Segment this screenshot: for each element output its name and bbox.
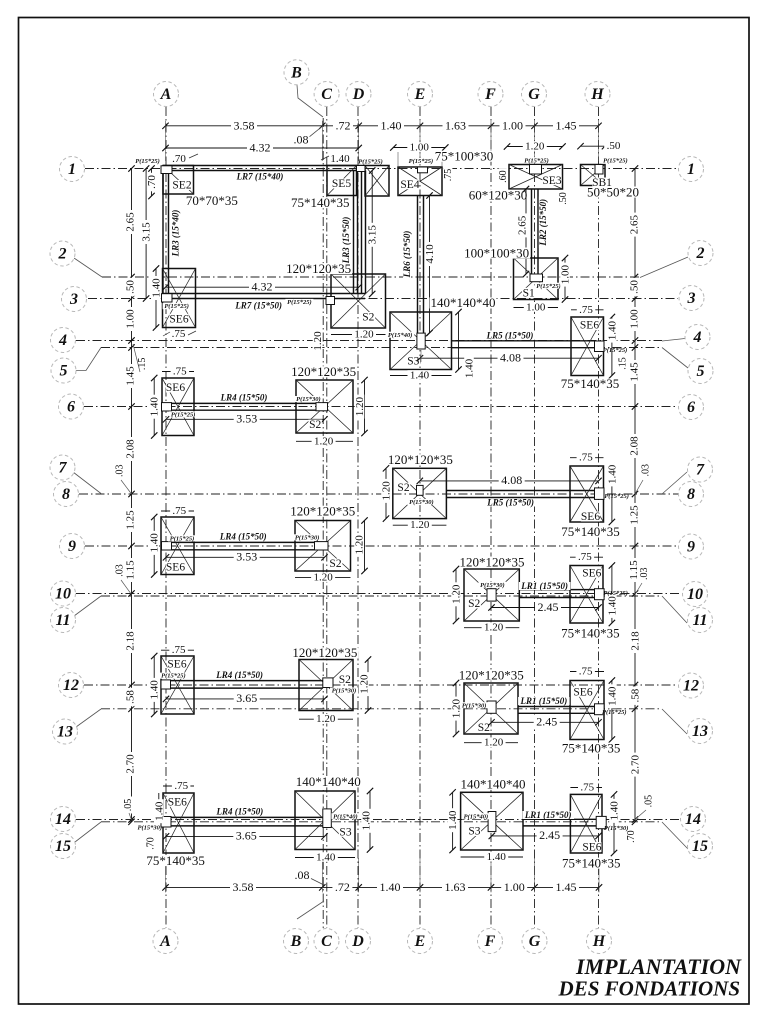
footing S2 (C/9) — [295, 521, 351, 572]
svg-text:4: 4 — [58, 332, 67, 349]
svg-text:12: 12 — [683, 678, 699, 695]
grid circle E bottom — [408, 929, 433, 954]
label 120*120*35 (C/12) — [291, 647, 358, 658]
grid circle 9 right — [679, 534, 704, 559]
svg-text:3.65: 3.65 — [236, 829, 257, 843]
grid line 6 (horizontal) — [84, 406, 678, 408]
svg-text:.75: .75 — [579, 304, 593, 316]
grid circle B bottom — [284, 929, 309, 954]
svg-text:LR1 (15*50): LR1 (15*50) — [520, 696, 568, 706]
svg-text:LR3 (15*40): LR3 (15*40) — [170, 210, 180, 258]
footing S3 (F/14-15) — [461, 792, 523, 850]
label SE6 (A/14-15) — [168, 797, 187, 807]
svg-text:1.20: 1.20 — [312, 331, 324, 351]
dim 3.53 row 9 — [166, 556, 325, 558]
leader circle B bottom — [297, 901, 324, 919]
beam LR4 (15*50) rows 14-15 — [171, 816, 323, 818]
leader circle 15 left — [75, 822, 101, 842]
post P A/12 — [161, 680, 171, 689]
svg-text:2.70: 2.70 — [125, 754, 137, 774]
svg-text:LR4 (15*50): LR4 (15*50) — [219, 532, 267, 542]
svg-text:75*140*35: 75*140*35 — [146, 853, 205, 868]
dim 4.08 rows 4-5 — [420, 357, 599, 359]
label P(15*25) SE4 — [407, 158, 435, 164]
svg-text:1.20: 1.20 — [381, 481, 393, 501]
svg-text:.75: .75 — [173, 366, 187, 378]
post P E/1 — [418, 167, 428, 173]
label SE6 (H/10-11) — [582, 568, 601, 578]
leader circle 13 left — [76, 709, 101, 727]
svg-text:A: A — [159, 933, 171, 950]
svg-text:P(15*30): P(15*30) — [138, 825, 163, 832]
dim 1.40 below S3 E — [390, 375, 452, 377]
svg-text:.75: .75 — [174, 780, 188, 792]
svg-text:F: F — [484, 86, 496, 103]
svg-text:1.20: 1.20 — [314, 435, 334, 447]
label 140*140*40 (C/14-15) — [295, 776, 362, 787]
svg-text:P(15*30): P(15*30) — [295, 534, 320, 541]
svg-text:10: 10 — [687, 586, 703, 603]
svg-text:1.40: 1.40 — [606, 320, 618, 340]
post P G/2 (S1) — [530, 274, 543, 282]
svg-text:1.63: 1.63 — [445, 880, 466, 894]
grid circle 2 left — [50, 241, 75, 266]
grid circle 12 right — [679, 673, 704, 698]
label P(15*30) E/7-8 — [407, 499, 435, 505]
dim .50 (SB1) — [581, 145, 606, 147]
svg-text:3.58: 3.58 — [234, 119, 255, 133]
svg-text:.03: .03 — [115, 465, 126, 478]
svg-text:2.45: 2.45 — [538, 600, 559, 614]
svg-text:.50: .50 — [558, 192, 569, 205]
svg-text:70*70*35: 70*70*35 — [186, 193, 238, 208]
svg-text:P(15*40): P(15*40) — [464, 813, 489, 820]
svg-text:F: F — [484, 933, 496, 950]
grid circle 10 right — [683, 582, 708, 607]
label P(15*25) SB1 — [601, 158, 629, 164]
svg-text:SE6: SE6 — [167, 659, 186, 671]
svg-text:H: H — [592, 933, 606, 950]
svg-text:.05: .05 — [644, 795, 655, 808]
post P H/1 (SB1 notch) — [595, 165, 603, 175]
svg-text:2.08: 2.08 — [125, 439, 137, 459]
dim 1.20 left of S2 D/3 vertical — [313, 329, 323, 353]
dim .60 left of SE3 — [499, 168, 508, 185]
dim .75 above SE6 H/12-13 — [570, 671, 604, 673]
dim 1.20 below S2 C/6 — [296, 440, 353, 442]
post P E/4-5 (S3) — [417, 333, 425, 349]
svg-text:P(15*25): P(15*25) — [603, 347, 628, 354]
grid circle 8 right — [679, 482, 704, 507]
label LR3 (15*40) col A — [172, 207, 180, 259]
label SE5 — [332, 179, 351, 189]
grid circle 4 left — [51, 328, 76, 353]
svg-text:4.32: 4.32 — [252, 280, 273, 294]
grid circle F bottom — [478, 929, 503, 954]
svg-text:LR7 (15*40): LR7 (15*40) — [236, 171, 284, 181]
label 60*120*30 — [468, 190, 529, 201]
svg-text:P(15*40): P(15*40) — [388, 332, 413, 339]
svg-text:1.45: 1.45 — [629, 362, 641, 382]
svg-text:6: 6 — [67, 399, 75, 416]
svg-text:10: 10 — [55, 586, 71, 603]
svg-text:1.45: 1.45 — [556, 119, 577, 133]
grid circle 3 left — [62, 287, 87, 312]
grid circle 1 right — [679, 157, 704, 182]
grid line 3 (horizontal) — [88, 298, 678, 300]
svg-text:75*140*35: 75*140*35 — [561, 524, 620, 539]
beam LR4 (15*50) row 6 — [172, 402, 317, 404]
dim 1.40 below S3 C/14-15 — [295, 857, 355, 859]
svg-text:14: 14 — [55, 811, 71, 828]
post P H/4-5 — [595, 341, 605, 352]
dim .75 above SE6 A/14-15 — [163, 785, 194, 787]
footing SE6 (A/9) — [161, 517, 194, 575]
svg-text:P(15*30): P(15*30) — [409, 499, 434, 506]
svg-text:.70: .70 — [146, 837, 157, 850]
grid line 10 (horizontal) — [76, 593, 681, 595]
label P(15*40) C/14-15 — [331, 813, 359, 819]
svg-text:S2: S2 — [478, 722, 490, 734]
grid line G (vertical) — [534, 107, 536, 928]
label S2 (E/7-8) — [397, 483, 411, 493]
grid circle 14 right — [681, 807, 706, 832]
dim .08 top — [291, 134, 311, 144]
svg-text:.75: .75 — [443, 169, 454, 182]
grid circle 5 right — [688, 359, 713, 384]
label 50*50*20 — [586, 187, 640, 198]
footing SE6 (A/14-15) — [163, 793, 194, 853]
dim 1.40 right of SE6 H/7-8 — [611, 466, 613, 522]
svg-text:15: 15 — [55, 838, 71, 855]
beam LR1 (15*50) rows 12-13 — [518, 706, 595, 708]
dim 1.20 left of S2 F/12-13 — [455, 683, 457, 734]
label S2 (D/3) — [362, 312, 376, 322]
svg-text:1.40: 1.40 — [487, 851, 507, 863]
dim 1.20 (SE3) — [507, 146, 563, 148]
svg-text:P(15*25): P(15*25) — [603, 590, 628, 597]
label LR4 (15*50) row 9 — [218, 533, 270, 541]
svg-text:1.25: 1.25 — [629, 505, 641, 525]
svg-text:S2: S2 — [339, 674, 351, 686]
dim 1.40 right of S3 C/14-15 — [369, 791, 371, 850]
svg-text:S2: S2 — [309, 419, 321, 431]
footing SE2 (A/1) — [163, 166, 194, 195]
svg-text:SE2: SE2 — [172, 180, 191, 192]
svg-text:2.65: 2.65 — [629, 214, 641, 234]
beam LR7 (15*50) row 3 — [163, 293, 365, 295]
dim 1.40 right of SE6 H/14-15 — [613, 794, 615, 853]
svg-text:1.40: 1.40 — [153, 801, 165, 821]
label SE6 (H/7-8) — [581, 512, 600, 522]
post P F/12-13 — [487, 701, 496, 713]
footing S2 (F/10-11) — [464, 569, 519, 621]
svg-text:13: 13 — [692, 723, 708, 740]
svg-text:1.45: 1.45 — [556, 880, 577, 894]
dim .75 above SE6 H/7-8 — [570, 457, 604, 459]
svg-text:.70: .70 — [172, 153, 186, 165]
svg-text:1.15: 1.15 — [125, 560, 137, 580]
leader circle 2 right — [640, 257, 688, 278]
svg-text:3.58: 3.58 — [233, 880, 254, 894]
label SE6 (A/3) — [169, 314, 188, 324]
svg-text:1.20: 1.20 — [484, 737, 504, 749]
grid line 15 (horizontal) — [101, 821, 662, 823]
beam LR5 (15*50) rows 4-5 — [452, 340, 595, 342]
svg-text:9: 9 — [68, 538, 76, 555]
svg-text:.08: .08 — [295, 868, 310, 882]
svg-text:.75: .75 — [579, 666, 593, 678]
svg-text:IMPLANTATION: IMPLANTATION — [575, 954, 742, 979]
footing S2 (D/3) — [331, 274, 386, 328]
dim 1.20 below S2 E/7-8 — [393, 524, 447, 526]
dim 3.65 rows 14-15 — [166, 835, 325, 837]
label P(15*30) F/10-11 — [478, 582, 506, 588]
grid circle C top — [314, 82, 339, 107]
label 75*140*35 (H/3-4) — [560, 378, 621, 389]
dim 1.20 right of S2 C/12 — [367, 660, 369, 711]
svg-text:.75: .75 — [578, 551, 592, 563]
grid line 11 (horizontal) — [101, 595, 662, 597]
svg-text:140*140*40: 140*140*40 — [296, 774, 361, 789]
leader circle 2 left — [74, 258, 102, 277]
footing S2 (E/7-8) — [393, 468, 447, 518]
svg-text:75*140*35: 75*140*35 — [562, 855, 621, 870]
svg-text:.70: .70 — [626, 830, 637, 843]
svg-text:2.45: 2.45 — [536, 715, 557, 729]
label S3 (E/4-5) — [407, 356, 421, 366]
svg-text:.03: .03 — [640, 464, 651, 477]
svg-text:.15: .15 — [618, 357, 629, 370]
grid circle B top — [284, 60, 309, 85]
leader circle B top — [297, 85, 323, 117]
svg-text:13: 13 — [57, 724, 73, 741]
post P H/12-13 — [595, 704, 605, 715]
label P(15*30) C/9 — [293, 534, 321, 540]
dim 3.15 right — [371, 171, 373, 295]
grid circle 9 left — [60, 534, 85, 559]
svg-text:2: 2 — [696, 245, 705, 262]
svg-text:1.40: 1.40 — [606, 596, 618, 616]
svg-text:6: 6 — [687, 399, 695, 416]
label S3 (F/14-15) — [468, 826, 482, 836]
grid circle 14 left — [51, 807, 76, 832]
svg-text:G: G — [529, 933, 541, 950]
footing SE6 (A/12) — [161, 656, 194, 714]
svg-text:1.40: 1.40 — [330, 153, 350, 165]
dim 4.10 col E — [429, 196, 431, 334]
post P C/12 — [323, 678, 333, 688]
svg-text:.75: .75 — [579, 452, 593, 464]
svg-text:.75: .75 — [172, 328, 186, 340]
label P(15*25) A/12 — [159, 673, 187, 679]
dim 1.40 right of SE6 H/12-13 — [611, 681, 613, 740]
grid line E (vertical) — [419, 107, 421, 928]
svg-text:1.00: 1.00 — [125, 309, 137, 329]
svg-text:.05: .05 — [123, 799, 134, 812]
svg-text:120*120*35: 120*120*35 — [286, 261, 351, 276]
svg-text:1: 1 — [687, 161, 695, 178]
dim .08 bottom — [292, 870, 312, 880]
post P A/14-15 — [161, 817, 171, 828]
dim 4.08 rows 7-8 — [420, 480, 599, 482]
label LR2 (15*50) — [539, 196, 547, 248]
svg-text:1.00: 1.00 — [502, 119, 523, 133]
dim 1.20 below S2 F/12-13 — [464, 742, 518, 744]
dim .75 above SE6 H/10-11 — [570, 556, 603, 558]
dim 1.20 below S2 C/12 — [299, 718, 353, 720]
grid line H (vertical) — [598, 107, 600, 928]
beam LR2 (15*50) col G — [531, 189, 533, 274]
label S2 (F/12-13) — [477, 723, 491, 733]
label 120*120*35 (E/7-8) — [387, 454, 454, 465]
svg-text:P(15*25): P(15*25) — [171, 411, 196, 418]
svg-text:9: 9 — [687, 539, 695, 556]
grid circle A bottom — [153, 929, 178, 954]
grid line 1 (horizontal) — [85, 168, 678, 170]
footing SE4 (E/1) — [398, 167, 442, 196]
label LR4 (15*50) rows 14-15 — [214, 808, 266, 816]
grid line 5 (horizontal) — [101, 347, 662, 349]
svg-text:SE3: SE3 — [542, 175, 561, 187]
footing SE6 (H/3-4) — [571, 317, 604, 376]
footing SE3 (G/1) — [509, 165, 563, 190]
svg-text:1.20: 1.20 — [354, 396, 366, 416]
label LR4 (15*50) row 6 — [218, 394, 270, 402]
dim 1.20 below S2 D/3 — [331, 334, 386, 336]
svg-text:LR6 (15*50): LR6 (15*50) — [402, 231, 412, 279]
svg-text:P(15*25): P(15*25) — [603, 158, 628, 165]
label LR4 (15*50) row 12 — [214, 671, 265, 679]
grid circle F top — [478, 82, 503, 107]
grid circle G top — [522, 82, 547, 107]
svg-text:3.53: 3.53 — [236, 550, 257, 564]
svg-text:S3: S3 — [339, 827, 351, 839]
svg-text:SE6: SE6 — [169, 314, 188, 326]
svg-text:SE6: SE6 — [580, 320, 599, 332]
post P A/3 — [162, 294, 173, 302]
svg-text:7: 7 — [59, 460, 68, 477]
beam LR5 (15*50) rows 7-8 — [446, 490, 594, 492]
svg-text:1.40: 1.40 — [464, 358, 476, 378]
svg-text:S2: S2 — [362, 312, 374, 324]
footing D/1 — [365, 166, 389, 197]
bottom dimension chain — [166, 886, 600, 888]
svg-text:P(15*30): P(15*30) — [462, 702, 487, 709]
svg-text:.03: .03 — [115, 564, 126, 577]
svg-text:2.65: 2.65 — [125, 212, 137, 232]
svg-text:B: B — [290, 64, 302, 81]
grid circle 2 right — [688, 241, 713, 266]
label LR1 (15*50) rows 14-15 — [523, 811, 575, 819]
dim 1.40 left of SE6 A/6 — [153, 378, 155, 436]
label 75*100*30 — [434, 151, 495, 162]
footing SE6 (H/12-13) — [570, 681, 604, 740]
label 120*120*35 (F/12-13) — [458, 670, 525, 681]
svg-text:75*140*35: 75*140*35 — [561, 376, 620, 391]
beam LR4 (15*50) row 12 — [171, 680, 323, 682]
dim .50 below SE3 — [559, 190, 568, 207]
post P C-D/1 — [357, 166, 366, 172]
leader circle 11 right — [662, 596, 687, 623]
svg-text:1.00: 1.00 — [410, 142, 430, 154]
dim 3.65 row 12 — [166, 698, 325, 700]
svg-text:P(15*30): P(15*30) — [332, 688, 357, 695]
label P(15*40) S3 E — [386, 332, 414, 338]
svg-text:LR4 (15*50): LR4 (15*50) — [215, 670, 263, 680]
svg-text:P(15*25): P(15*25) — [287, 299, 312, 306]
svg-text:1.00: 1.00 — [629, 309, 641, 329]
dim .03 right (rows 10-11) — [639, 565, 648, 582]
svg-text:P(15*25): P(15*25) — [536, 283, 561, 290]
svg-text:75*140*35: 75*140*35 — [291, 195, 350, 210]
svg-text:4: 4 — [693, 329, 702, 346]
dim .03 left (rows 7-8) — [115, 462, 124, 479]
svg-text:1.40: 1.40 — [149, 680, 161, 700]
svg-text:LR1 (15*50): LR1 (15*50) — [520, 581, 568, 591]
post P F/10-11 — [487, 589, 496, 601]
svg-text:8: 8 — [687, 486, 695, 503]
grid line 14 (horizontal) — [76, 819, 680, 821]
grid line 13 (horizontal) — [101, 708, 662, 710]
svg-text:C: C — [321, 933, 332, 950]
svg-text:.08: .08 — [294, 132, 309, 146]
dim .70 left vertical — [151, 169, 153, 197]
svg-text:H: H — [590, 86, 604, 103]
dim .03 right (rows 7-8) — [641, 462, 650, 479]
svg-text:SE6: SE6 — [581, 511, 600, 523]
svg-text:P(15*25): P(15*25) — [358, 159, 383, 166]
svg-text:.50: .50 — [629, 280, 641, 294]
dim 1.20 left of S2 E/7-8 — [385, 468, 387, 518]
label P(15*25) A/9 — [168, 535, 196, 541]
svg-text:2.45: 2.45 — [539, 828, 560, 842]
svg-text:P(15*30): P(15*30) — [480, 582, 505, 589]
svg-text:4.08: 4.08 — [501, 473, 522, 487]
dim .75 above SE6 A/6 — [162, 371, 194, 373]
grid line B (vertical) — [322, 118, 324, 928]
dim 1.00 below S1 — [514, 307, 559, 309]
svg-text:120*120*35: 120*120*35 — [291, 364, 356, 379]
post P D/3 — [326, 297, 335, 305]
svg-text:1.40: 1.40 — [609, 801, 621, 821]
grid circle 15 right — [688, 834, 713, 859]
svg-text:120*120*35: 120*120*35 — [460, 554, 525, 569]
svg-text:E: E — [414, 86, 426, 103]
svg-text:P(15*40): P(15*40) — [333, 813, 358, 820]
dim 1.40 left of SE6 A/12 — [153, 656, 155, 714]
svg-text:.60: .60 — [498, 170, 509, 183]
grid circle C bottom — [314, 929, 339, 954]
svg-text:.75: .75 — [172, 505, 186, 517]
svg-text:75*140*35: 75*140*35 — [562, 740, 621, 755]
label 75*140*35 (H/14-15) — [561, 858, 622, 869]
label P(15*30) C/6 — [294, 396, 322, 402]
dim 1.20 below S2 F/10-11 — [464, 627, 519, 629]
label SE6 (A/6) — [166, 383, 185, 393]
svg-text:2.08: 2.08 — [629, 436, 641, 456]
label S2 (C/12) — [338, 675, 352, 685]
footing S1 (G/2) — [514, 258, 559, 300]
leader circle 7 right — [662, 472, 687, 494]
svg-text:1.40: 1.40 — [316, 852, 336, 864]
grid circle 13 left — [53, 719, 78, 744]
svg-text:3.65: 3.65 — [236, 691, 257, 705]
leader circle 7 left — [73, 472, 101, 494]
svg-text:SE6: SE6 — [168, 797, 187, 809]
dim .70 left (row 15) — [146, 835, 155, 852]
footing S2 (F/12-13) — [464, 683, 518, 734]
